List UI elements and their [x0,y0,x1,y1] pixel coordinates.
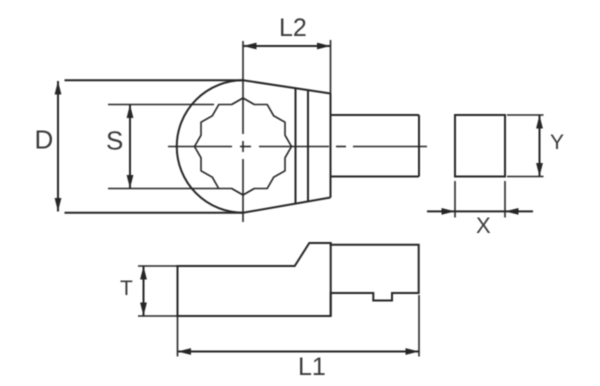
svg-text:X: X [476,213,491,238]
svg-text:S: S [106,126,123,156]
svg-text:T: T [120,277,133,300]
svg-text:Y: Y [550,131,564,154]
svg-text:L2: L2 [279,14,307,42]
svg-text:D: D [35,125,54,155]
svg-text:L1: L1 [298,353,326,381]
